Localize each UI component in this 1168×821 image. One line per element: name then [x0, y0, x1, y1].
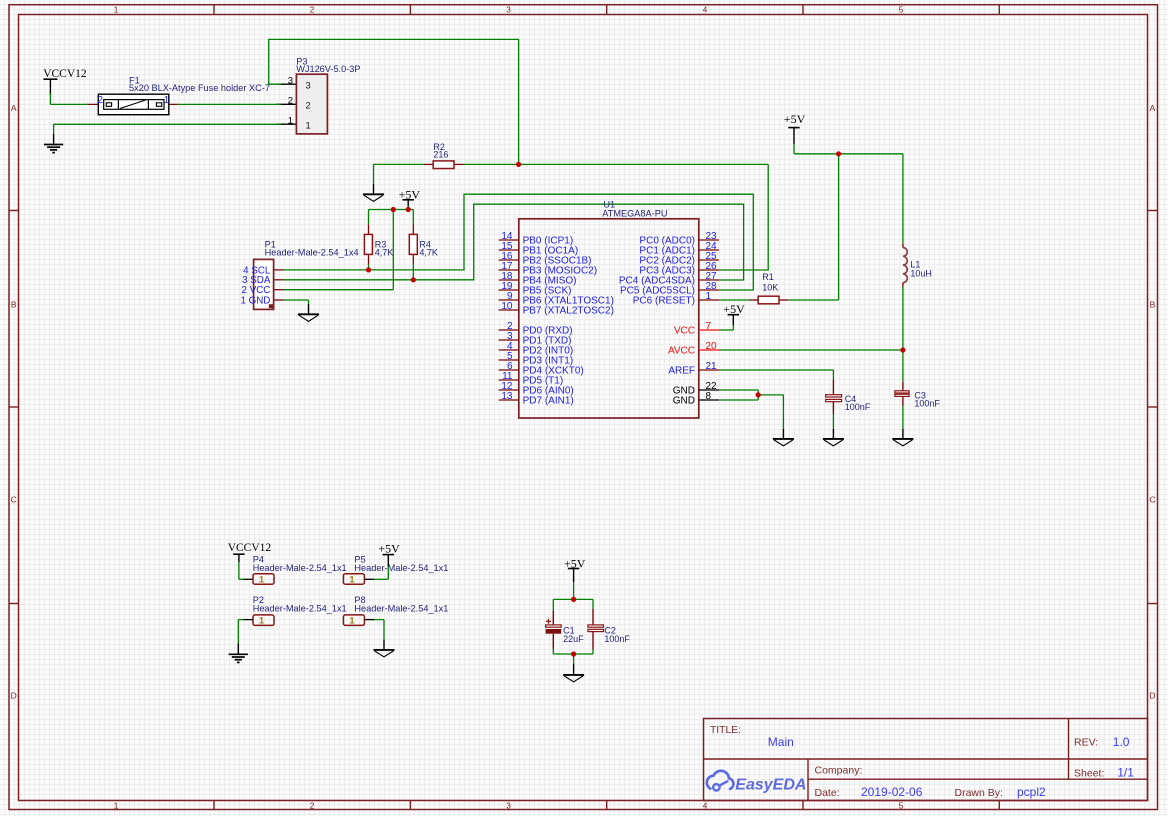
ground (triangle) GND pins	[773, 439, 794, 446]
capacitor C2	[588, 609, 631, 650]
svg-text:A: A	[1150, 103, 1156, 113]
wire R3 bottom stub to SCL	[368, 264, 370, 270]
svg-text:Header-Male-2.54_1x4: Header-Male-2.54_1x4	[265, 247, 359, 257]
wire net AVCC rail below L1	[719, 287, 903, 382]
svg-text:1: 1	[114, 801, 119, 810]
svg-text:100nF: 100nF	[845, 402, 871, 412]
frame column numbers top	[114, 6, 904, 15]
power flag +5V (top right)	[784, 112, 806, 144]
header P8	[343, 595, 448, 625]
wire net AREF to C4	[719, 370, 833, 380]
U1 right pins PC0-PC6	[619, 231, 719, 306]
svg-text:D: D	[11, 691, 17, 701]
svg-text:1.0: 1.0	[1113, 735, 1130, 749]
wire C4 to ground	[832, 414, 834, 439]
svg-text:3: 3	[288, 75, 293, 86]
header P2	[243, 595, 346, 625]
ground (triangle) below C1 C2	[563, 675, 584, 682]
frame row letters right	[1149, 103, 1155, 701]
svg-text:1: 1	[349, 616, 354, 626]
fuse F1	[87, 75, 270, 114]
svg-text:4,7K: 4,7K	[375, 247, 394, 257]
svg-text:100nF: 100nF	[914, 398, 940, 408]
svg-text:VCCV12: VCCV12	[228, 542, 272, 554]
svg-text:PB7 (XTAL2TOSC2): PB7 (XTAL2TOSC2)	[523, 305, 614, 316]
wire net C1 C2 top	[553, 582, 593, 611]
svg-text:1: 1	[288, 115, 293, 126]
resistor R4	[409, 224, 438, 264]
svg-text:2019-02-06: 2019-02-06	[861, 785, 923, 799]
junction +5V/P1-VCC	[391, 207, 396, 212]
svg-text:8: 8	[706, 391, 712, 402]
ground (triangle) below C3	[892, 439, 913, 446]
svg-text:C: C	[1149, 495, 1155, 505]
U1 power pins VCC AVCC AREF GND GND	[668, 321, 719, 406]
U1 left pins PD0-PD7	[499, 321, 584, 406]
svg-text:AVCC: AVCC	[668, 345, 695, 356]
connector P3	[276, 56, 360, 134]
svg-text:21: 21	[706, 361, 718, 372]
header P5	[343, 554, 448, 584]
junction +5V stem	[406, 207, 411, 212]
resistor R2	[424, 142, 464, 169]
header P1	[240, 240, 358, 310]
svg-text:Header-Male-2.54_1x1: Header-Male-2.54_1x1	[354, 563, 448, 573]
svg-text:Date:: Date:	[815, 787, 840, 799]
junction SCL/R3	[366, 267, 371, 272]
svg-text:Header-Male-2.54_1x1: Header-Male-2.54_1x1	[253, 604, 347, 614]
header P4	[253, 554, 347, 584]
ground (earth) near VCCV12	[44, 124, 63, 152]
capacitor C1 (polarized)	[546, 611, 585, 650]
svg-text:1 GND: 1 GND	[240, 295, 270, 306]
svg-text:20: 20	[706, 341, 718, 352]
svg-text:ATMEGA8A-PU: ATMEGA8A-PU	[602, 208, 667, 218]
svg-text:5x20 BLX-Atype Fuse holder XC-: 5x20 BLX-Atype Fuse holder XC-7	[129, 83, 270, 93]
svg-text:10uH: 10uH	[910, 269, 932, 279]
svg-text:4: 4	[703, 801, 708, 810]
capacitor C4	[826, 380, 871, 414]
ground (triangle) below P1	[298, 314, 319, 321]
wire C3 to ground	[902, 406, 904, 439]
svg-text:C: C	[11, 495, 17, 505]
svg-text:10: 10	[501, 301, 513, 312]
svg-text:WJ126V-5.0-3P: WJ126V-5.0-3P	[296, 64, 360, 74]
wire net P1 GND	[284, 300, 309, 314]
svg-text:Main: Main	[768, 735, 794, 749]
svg-text:A: A	[11, 103, 17, 113]
svg-text:216: 216	[433, 150, 448, 160]
svg-text:13: 13	[501, 391, 513, 402]
power flag +5V (at VCC pin)	[723, 302, 745, 325]
svg-text:R1: R1	[762, 272, 774, 282]
resistor R1	[749, 272, 788, 304]
capacitor C3	[895, 382, 941, 409]
svg-text:2: 2	[98, 95, 103, 106]
svg-text:1: 1	[114, 6, 119, 15]
svg-text:REV:: REV:	[1074, 737, 1098, 749]
wire net RESET: U1 pin1 to R1 to +5V rail	[719, 299, 839, 301]
junction SDA/R4	[411, 277, 416, 282]
svg-text:EasyEDA: EasyEDA	[735, 777, 806, 794]
svg-text:VCC: VCC	[674, 325, 695, 336]
power flag VCCV12 (top left)	[43, 68, 87, 95]
svg-text:B: B	[1150, 300, 1156, 310]
svg-text:Header-Male-2.54_1x1: Header-Male-2.54_1x1	[253, 563, 347, 573]
wire R4 bottom stub to SDA	[412, 264, 414, 279]
ground (triangle) below C4	[823, 439, 844, 446]
wire net SCL	[284, 194, 753, 290]
svg-text:+5V: +5V	[378, 542, 400, 556]
svg-text:1: 1	[306, 120, 311, 131]
svg-text:Header-Male-2.54_1x1: Header-Male-2.54_1x1	[354, 604, 448, 614]
wire net R2 left to ground	[374, 164, 424, 194]
svg-text:B: B	[11, 300, 17, 310]
ground (triangle) below P8	[374, 650, 395, 657]
junction GND net	[756, 392, 761, 397]
svg-text:GND: GND	[673, 395, 695, 406]
wire net VCC pin7	[719, 325, 733, 330]
svg-text:3: 3	[506, 6, 511, 15]
wire net +5V right rail	[794, 144, 903, 300]
svg-text:5: 5	[899, 6, 904, 15]
power flag +5V (at P5)	[378, 542, 400, 567]
wire net R2 right to U1 pin26	[464, 164, 768, 270]
svg-text:2: 2	[306, 100, 311, 111]
svg-text:1: 1	[349, 574, 354, 584]
svg-text:D: D	[1149, 691, 1155, 701]
svg-text:4,7K: 4,7K	[419, 247, 438, 257]
svg-text:Drawn By:: Drawn By:	[955, 787, 1003, 799]
resistor R3	[364, 224, 393, 264]
svg-text:22uF: 22uF	[563, 634, 584, 644]
ground (earth) below P2	[229, 654, 248, 662]
ground (triangle) below R2 left	[363, 194, 384, 201]
U1 left pins PB0-PB7	[499, 231, 614, 316]
svg-text:4: 4	[703, 6, 708, 15]
svg-text:PC6 (RESET): PC6 (RESET)	[633, 295, 695, 306]
svg-text:1: 1	[706, 291, 712, 302]
svg-text:Sheet:: Sheet:	[1074, 767, 1104, 779]
frame column numbers bottom	[114, 801, 904, 810]
svg-text:1: 1	[259, 574, 264, 584]
inductor L1	[903, 244, 932, 287]
svg-text:5: 5	[899, 801, 904, 810]
wire net GND-A: ground to P3 pin1	[54, 123, 281, 125]
wire net SDA	[284, 204, 744, 280]
IC U1 ATMEGA8A-PU	[519, 200, 699, 418]
wire P2 to ground	[238, 620, 243, 655]
junction C1C2 bottom	[571, 651, 576, 656]
svg-text:Company:: Company:	[815, 764, 863, 776]
power flag +5V (above R3 R4)	[399, 187, 421, 206]
svg-text:10K: 10K	[762, 282, 778, 292]
svg-text:pcpl2: pcpl2	[1017, 785, 1046, 799]
junction C1C2 top	[571, 597, 576, 602]
wire P5 to +5V	[374, 566, 388, 579]
wire VCCV12 to P4	[239, 562, 253, 579]
wire net +5V left node	[369, 207, 414, 290]
frame row letters left	[11, 103, 17, 701]
power flag +5V (at C1 C2)	[564, 556, 586, 582]
wire net C1 C2 bottom to ground	[553, 649, 593, 675]
title block	[704, 719, 1148, 801]
svg-text:PD7 (AIN1): PD7 (AIN1)	[523, 395, 574, 406]
wire net 12V: VCCV12 to F1 to P3 pin2	[50, 93, 280, 104]
svg-text:AREF: AREF	[668, 365, 695, 376]
svg-text:TITLE:: TITLE:	[710, 725, 741, 736]
wire P8 to ground	[374, 620, 384, 650]
svg-text:1: 1	[164, 95, 169, 106]
junction +5V rail / R1 branch	[836, 151, 841, 156]
svg-text:3: 3	[506, 801, 511, 810]
svg-text:7: 7	[706, 321, 712, 332]
wire net VCC from P1	[284, 289, 393, 291]
wire net P3 pin3 loop to R2 junction	[269, 39, 519, 164]
svg-text:3: 3	[306, 80, 311, 91]
wire net GND pins 22/8	[719, 390, 783, 439]
junction AVCC/L1/C3	[900, 347, 905, 352]
svg-text:1: 1	[259, 616, 264, 626]
svg-text:2: 2	[288, 96, 293, 107]
power flag VCCV12 (bottom)	[228, 542, 272, 562]
svg-text:+5V: +5V	[784, 112, 806, 126]
EasyEDA logo	[707, 771, 807, 794]
svg-text:100nF: 100nF	[604, 634, 630, 644]
svg-text:2: 2	[310, 801, 315, 810]
svg-text:1/1: 1/1	[1117, 766, 1134, 780]
svg-text:2: 2	[310, 6, 315, 15]
junction R2/P3 net	[516, 162, 521, 167]
